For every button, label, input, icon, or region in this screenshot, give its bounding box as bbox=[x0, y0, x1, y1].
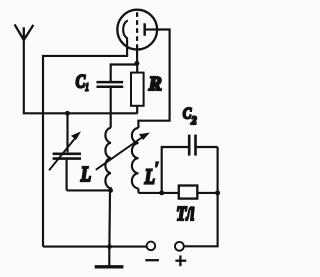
terminal plus bbox=[175, 242, 186, 266]
node: phones right / C2 right / battery plus junction bbox=[215, 190, 220, 195]
node: ground junction bbox=[107, 244, 112, 249]
svg-text:′: ′ bbox=[155, 159, 159, 178]
inductor L bbox=[105, 113, 111, 190]
svg-text:л: л bbox=[186, 196, 195, 226]
capacitor C2 bbox=[162, 135, 218, 194]
node: grid / C1 / R junction bbox=[134, 61, 139, 66]
wire: anode to L' top bbox=[138, 30, 169, 129]
capacitor C1 bbox=[97, 65, 137, 114]
node: phones left junction bbox=[159, 191, 164, 196]
wire: bottom ground line bbox=[43, 246, 147, 248]
anode bar bbox=[143, 23, 146, 36]
arrow: variable coupling L to L' bbox=[96, 133, 149, 170]
ground bbox=[95, 247, 124, 267]
svg-text:2: 2 bbox=[190, 115, 196, 127]
cathode arc bbox=[123, 21, 128, 39]
wire: grid lead bbox=[136, 48, 138, 64]
svg-text:C: C bbox=[76, 73, 86, 93]
svg-text:1: 1 bbox=[85, 81, 89, 93]
wire: tank bottom bbox=[67, 189, 111, 191]
variable capacitor (tuning) bbox=[49, 132, 81, 170]
inductor L' bbox=[132, 128, 139, 193]
tube V1 (triode) bbox=[117, 10, 158, 50]
svg-text:L: L bbox=[80, 162, 91, 186]
wire: variable capacitor top lead bbox=[66, 113, 68, 152]
antenna bbox=[15, 24, 34, 113]
wire: tank top line from antenna to R bottom bbox=[23, 112, 138, 114]
wire: tank bottom down to ground line bbox=[108, 190, 111, 246]
wire: cathode to left rail and ground line bbox=[43, 38, 128, 246]
wire: L' bottom to phones node bbox=[138, 192, 161, 194]
grid (dashed) bbox=[136, 12, 138, 48]
terminal minus bbox=[145, 242, 159, 261]
svg-text:L: L bbox=[144, 164, 155, 188]
node: L bottom junction bbox=[108, 188, 113, 193]
wire: variable capacitor bottom lead bbox=[66, 160, 68, 191]
svg-text:C: C bbox=[183, 106, 192, 123]
wire: right rail down to plus terminal bbox=[184, 147, 218, 246]
svg-text:R: R bbox=[148, 74, 162, 95]
phones Tl (telephone) bbox=[162, 186, 218, 199]
node: junction antenna line / variable capacitor bbox=[65, 111, 70, 116]
resistor R bbox=[131, 63, 144, 113]
anode lead inside bbox=[145, 28, 158, 30]
